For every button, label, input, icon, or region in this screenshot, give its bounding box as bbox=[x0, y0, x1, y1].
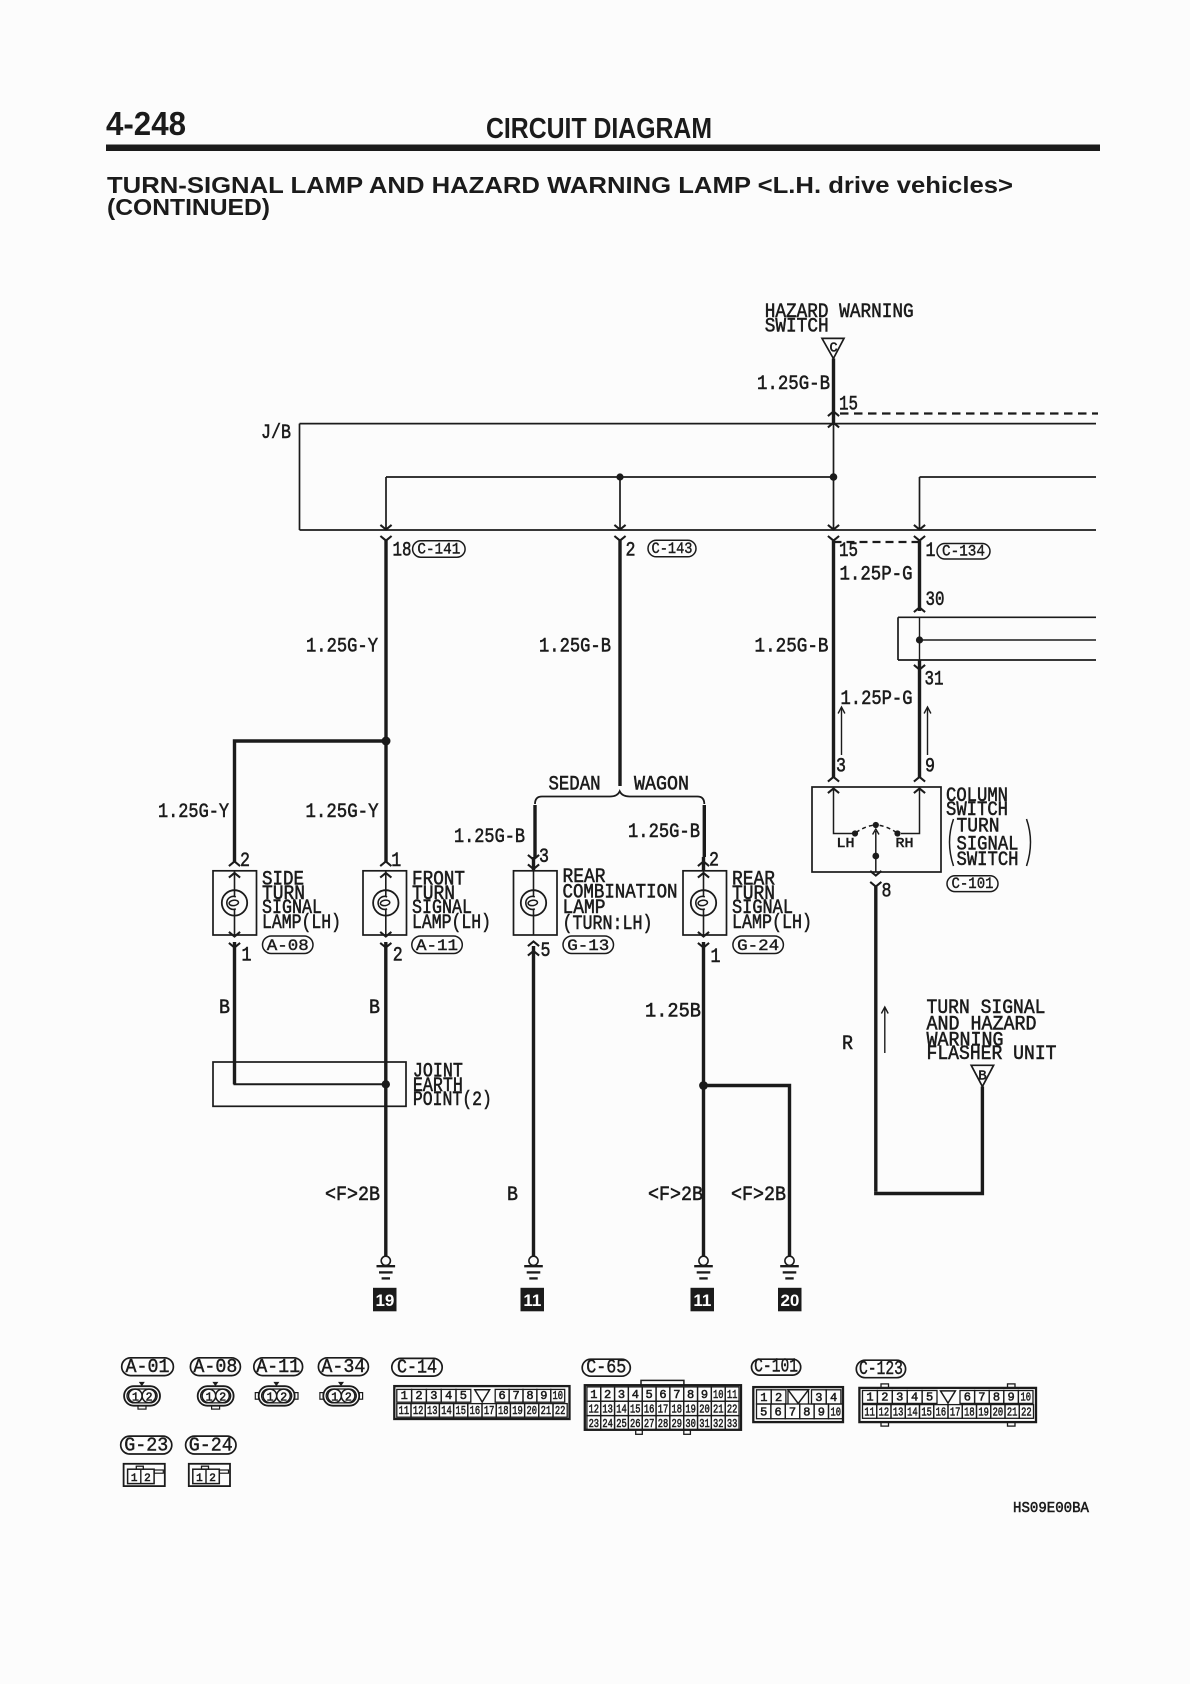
svg-text:29: 29 bbox=[672, 1417, 683, 1431]
junction box internal wire bbox=[919, 617, 921, 660]
svg-text:5: 5 bbox=[926, 1390, 933, 1404]
lamp connector stadium bbox=[412, 936, 463, 954]
svg-text:SWITCH: SWITCH bbox=[957, 849, 1019, 872]
wire 1.25G-B from J/B pin 2 bbox=[618, 541, 621, 786]
svg-text:25: 25 bbox=[616, 1417, 627, 1431]
ground symbol 19 bbox=[381, 1256, 390, 1265]
svg-text:21: 21 bbox=[1007, 1405, 1018, 1419]
intermediate junction box open right bbox=[898, 616, 1096, 618]
chevrons exit pin 15 bbox=[828, 525, 839, 530]
svg-text:6: 6 bbox=[964, 1390, 971, 1404]
connector label C-101 bbox=[752, 1359, 801, 1375]
svg-text:16: 16 bbox=[470, 1404, 481, 1418]
lamp internal lead bbox=[234, 871, 236, 897]
chevrons entering column switch pin 9 bbox=[914, 777, 925, 782]
svg-text:<F>2B: <F>2B bbox=[325, 1184, 380, 1207]
svg-text:8: 8 bbox=[526, 1389, 533, 1403]
lamp bulb circle bbox=[691, 890, 716, 915]
svg-text:12: 12 bbox=[879, 1405, 890, 1419]
svg-text:G-13: G-13 bbox=[567, 937, 609, 955]
svg-text:6: 6 bbox=[499, 1389, 506, 1403]
svg-text:1.25G-B: 1.25G-B bbox=[628, 821, 700, 844]
svg-text:G-23: G-23 bbox=[124, 1434, 168, 1456]
J/B internal line to C-134 pin 1 bbox=[920, 476, 1097, 478]
lamp bulb circle bbox=[222, 890, 247, 915]
svg-text:16: 16 bbox=[644, 1403, 655, 1417]
svg-text:C-123: C-123 bbox=[859, 1358, 903, 1380]
svg-text:4: 4 bbox=[445, 1389, 452, 1403]
svg-text:11: 11 bbox=[693, 1291, 711, 1310]
dashed tie between pin15 and pin1 wires bbox=[834, 541, 920, 543]
connector C-123 bottom tabs bbox=[881, 1422, 889, 1426]
svg-text:28: 28 bbox=[658, 1417, 669, 1431]
LH contact dot bbox=[852, 830, 858, 836]
svg-text:1: 1 bbox=[267, 1391, 274, 1404]
lamp filament loop bbox=[378, 896, 387, 909]
svg-text:27: 27 bbox=[644, 1417, 655, 1431]
svg-text:10: 10 bbox=[713, 1388, 724, 1402]
svg-text:14: 14 bbox=[907, 1405, 918, 1419]
svg-text:14: 14 bbox=[616, 1403, 627, 1417]
wiper arrow to common pole bbox=[873, 829, 879, 835]
svg-text:26: 26 bbox=[630, 1417, 641, 1431]
svg-text:2: 2 bbox=[345, 1391, 352, 1404]
chevrons exiting column switch pin 8 bbox=[870, 871, 881, 876]
svg-text:CIRCUIT DIAGRAM: CIRCUIT DIAGRAM bbox=[486, 113, 712, 145]
branch wire to ground 20 bbox=[704, 1086, 790, 1257]
lamp connector stadium bbox=[263, 936, 314, 954]
connector C-141 stadium bbox=[413, 541, 466, 557]
connector A-01 face bbox=[124, 1386, 160, 1406]
svg-text:1: 1 bbox=[391, 850, 401, 873]
connector label G-23 bbox=[121, 1436, 172, 1454]
svg-text:22: 22 bbox=[555, 1404, 566, 1418]
svg-text:WAGON: WAGON bbox=[634, 774, 689, 797]
svg-text:10: 10 bbox=[1020, 1390, 1031, 1404]
svg-text:7: 7 bbox=[673, 1388, 680, 1402]
lamp filament loop bbox=[696, 896, 705, 909]
svg-text:C: C bbox=[829, 342, 837, 357]
wire 1.25G-Y from J/B pin 18 bbox=[384, 541, 387, 862]
svg-text:1: 1 bbox=[866, 1390, 873, 1404]
svg-text:31: 31 bbox=[699, 1417, 710, 1431]
wire R from column switch pin 8 bbox=[874, 887, 877, 1192]
flasher terminal B triangle bbox=[971, 1065, 993, 1086]
connector C-101 face bbox=[753, 1387, 843, 1422]
svg-text:1: 1 bbox=[131, 1473, 138, 1485]
J/B internal wire hazard continuation bbox=[833, 424, 835, 530]
earth bus inside joint earth box bbox=[233, 1062, 236, 1084]
svg-text:33: 33 bbox=[727, 1417, 738, 1431]
dashed wiper to RH bbox=[876, 825, 897, 833]
svg-text:18: 18 bbox=[964, 1405, 975, 1419]
svg-text:15: 15 bbox=[921, 1405, 932, 1419]
svg-text:14: 14 bbox=[441, 1404, 452, 1418]
svg-text:<F>2B: <F>2B bbox=[648, 1184, 703, 1207]
svg-text:J/B: J/B bbox=[261, 422, 291, 445]
connector G-23 face bbox=[124, 1464, 165, 1486]
svg-text:7: 7 bbox=[512, 1389, 519, 1403]
connector A-08 face bbox=[198, 1386, 234, 1406]
wire B from side lamp pin 1 bbox=[233, 942, 236, 1062]
svg-text:(TURN:LH): (TURN:LH) bbox=[563, 913, 653, 936]
flow arrow on R wire bbox=[884, 1009, 886, 1054]
J/B left edge bbox=[299, 424, 301, 530]
svg-text:LAMP(LH): LAMP(LH) bbox=[262, 912, 341, 935]
svg-text:LH: LH bbox=[837, 836, 855, 852]
svg-text:2: 2 bbox=[219, 1391, 226, 1404]
svg-text:17: 17 bbox=[950, 1405, 961, 1419]
column switch internal lead pin 9 bbox=[901, 787, 920, 834]
svg-text:11: 11 bbox=[727, 1388, 738, 1402]
svg-text:12: 12 bbox=[589, 1403, 600, 1417]
svg-text:2: 2 bbox=[881, 1390, 888, 1404]
ground symbol 11 bbox=[529, 1256, 538, 1265]
svg-text:2: 2 bbox=[280, 1391, 287, 1404]
lamp internal lead bbox=[533, 871, 535, 897]
flow arrow on pin9 wire bbox=[927, 709, 929, 756]
svg-text:POINT(2): POINT(2) bbox=[413, 1089, 492, 1112]
svg-text:13: 13 bbox=[602, 1403, 613, 1417]
svg-text:20: 20 bbox=[699, 1403, 710, 1417]
svg-text:A-08: A-08 bbox=[267, 937, 309, 955]
wire B from front lamp pin 2 bbox=[384, 942, 387, 1062]
side turn signal lamp box bbox=[213, 871, 257, 935]
svg-text:7: 7 bbox=[978, 1390, 985, 1404]
wire from front lamp through earth box to ground bbox=[384, 1062, 387, 1256]
ground number box 19 bbox=[373, 1288, 397, 1312]
svg-text:1.25G-Y: 1.25G-Y bbox=[158, 801, 229, 824]
big parenthesis left bbox=[950, 819, 954, 866]
svg-text:22: 22 bbox=[1021, 1405, 1032, 1419]
lamp connector stadium bbox=[563, 936, 614, 954]
svg-text:C-101: C-101 bbox=[952, 875, 994, 893]
flow arrow on pin3 wire bbox=[841, 709, 843, 756]
svg-text:11: 11 bbox=[399, 1404, 410, 1418]
svg-text:8: 8 bbox=[687, 1388, 694, 1402]
svg-text:10: 10 bbox=[830, 1406, 841, 1420]
ground symbol 11 bbox=[699, 1256, 708, 1265]
svg-text:C-65: C-65 bbox=[586, 1357, 626, 1379]
svg-text:6: 6 bbox=[774, 1406, 781, 1420]
chevrons exit pin 18 bbox=[380, 525, 391, 530]
chevrons exit pin 1 bbox=[914, 525, 925, 530]
connector label A-08 bbox=[190, 1358, 240, 1376]
lamp filament loop bbox=[227, 896, 236, 909]
connector label G-24 bottom bbox=[186, 1436, 236, 1454]
svg-text:2: 2 bbox=[146, 1391, 153, 1404]
J/B bottom edge bbox=[300, 529, 1097, 531]
svg-text:1.25G-Y: 1.25G-Y bbox=[306, 801, 379, 824]
svg-text:2: 2 bbox=[604, 1388, 611, 1402]
column switch box bbox=[812, 787, 941, 872]
wire 1.25P-G to column switch pin 9 bbox=[918, 660, 921, 777]
svg-text:9: 9 bbox=[1007, 1390, 1014, 1404]
lamp connector stadium bbox=[733, 936, 784, 954]
svg-text:4-248: 4-248 bbox=[106, 105, 186, 142]
rear combination lamp box bbox=[514, 871, 558, 935]
svg-text:1.25G-B: 1.25G-B bbox=[755, 636, 829, 659]
J/B internal wire to pin 2 bbox=[619, 477, 621, 530]
svg-text:1: 1 bbox=[132, 1391, 139, 1404]
lamp internal lead bbox=[385, 871, 387, 897]
svg-text:2: 2 bbox=[415, 1389, 422, 1403]
connector C-134 stadium bbox=[937, 544, 990, 560]
svg-text:21: 21 bbox=[541, 1404, 552, 1418]
svg-text:20: 20 bbox=[993, 1405, 1004, 1419]
connector C-14 face bbox=[394, 1386, 569, 1419]
svg-text:3: 3 bbox=[539, 846, 549, 869]
svg-text:5: 5 bbox=[460, 1389, 467, 1403]
svg-text:C-141: C-141 bbox=[417, 541, 460, 559]
connector label C-123 bbox=[856, 1360, 905, 1378]
connector C-65 bottom tabs bbox=[636, 1430, 643, 1435]
svg-text:5: 5 bbox=[760, 1406, 767, 1420]
svg-text:4: 4 bbox=[830, 1391, 837, 1405]
svg-text:32: 32 bbox=[713, 1417, 724, 1431]
connector label A-11 bbox=[254, 1358, 303, 1376]
svg-text:8: 8 bbox=[803, 1406, 810, 1420]
svg-text:C-134: C-134 bbox=[942, 542, 985, 560]
svg-text:19: 19 bbox=[512, 1404, 523, 1418]
svg-text:10: 10 bbox=[553, 1389, 564, 1403]
ground number box 20 bbox=[778, 1288, 802, 1312]
svg-text:24: 24 bbox=[602, 1417, 613, 1431]
svg-text:B: B bbox=[978, 1069, 986, 1085]
svg-text:20: 20 bbox=[526, 1404, 537, 1418]
chevrons entering column switch pin 3 bbox=[828, 777, 839, 782]
svg-text:R: R bbox=[842, 1033, 853, 1056]
svg-text:13: 13 bbox=[427, 1404, 438, 1418]
connector label C-65 bbox=[582, 1359, 630, 1376]
connector C-65 face bbox=[585, 1385, 741, 1430]
wire loop to flasher unit bbox=[876, 1087, 983, 1194]
connector label A-34 bbox=[318, 1358, 368, 1376]
svg-text:G-24: G-24 bbox=[189, 1434, 233, 1456]
connector A-11 face bbox=[259, 1386, 295, 1406]
svg-text:2: 2 bbox=[144, 1473, 151, 1485]
svg-text:20: 20 bbox=[780, 1291, 799, 1310]
svg-text:HS09E00BA: HS09E00BA bbox=[1013, 1500, 1089, 1517]
svg-text:16: 16 bbox=[936, 1405, 947, 1419]
connector A-34 face bbox=[323, 1386, 359, 1406]
svg-text:3: 3 bbox=[815, 1391, 822, 1405]
wire 1.25P-G from J/B pin 15 to column switch pin 3 bbox=[832, 541, 835, 777]
svg-text:1: 1 bbox=[926, 540, 936, 563]
svg-text:RH: RH bbox=[896, 836, 914, 852]
svg-text:18: 18 bbox=[498, 1404, 509, 1418]
svg-text:12: 12 bbox=[413, 1404, 424, 1418]
J/B dashed top line bbox=[840, 412, 1098, 414]
svg-text:1: 1 bbox=[206, 1391, 213, 1404]
svg-text:1.25B: 1.25B bbox=[645, 1001, 701, 1024]
svg-text:17: 17 bbox=[658, 1403, 669, 1417]
svg-text:A-01: A-01 bbox=[126, 1356, 170, 1378]
chevrons entering J/B bbox=[828, 412, 839, 417]
wire 1.25G-B wagon branch bbox=[703, 805, 706, 857]
svg-text:3: 3 bbox=[896, 1390, 903, 1404]
common pole dot bbox=[873, 822, 879, 828]
wire 1.25G-B from hazard switch bbox=[832, 359, 835, 426]
svg-text:30: 30 bbox=[926, 589, 945, 612]
wire 1.25G-B sedan branch bbox=[533, 805, 536, 857]
svg-text:5: 5 bbox=[646, 1388, 653, 1402]
svg-text:2: 2 bbox=[209, 1473, 216, 1485]
svg-text:6: 6 bbox=[659, 1388, 666, 1402]
junction dot internal bus at hazard wire bbox=[830, 473, 838, 481]
lamp internal lead bbox=[703, 871, 705, 897]
svg-text:9: 9 bbox=[540, 1389, 547, 1403]
svg-text:A-11: A-11 bbox=[416, 937, 458, 955]
J/B internal wire to pin 18 bbox=[385, 477, 387, 530]
ground number box 11 bbox=[521, 1288, 545, 1312]
connector C-101 stadium bbox=[947, 876, 998, 892]
svg-text:2: 2 bbox=[709, 850, 719, 873]
svg-text:8: 8 bbox=[993, 1390, 1000, 1404]
junction dot joint earth bbox=[382, 1080, 390, 1088]
svg-text:3: 3 bbox=[836, 756, 846, 779]
svg-text:31: 31 bbox=[925, 669, 944, 692]
hazard warning switch terminal C triangle bbox=[822, 338, 844, 358]
svg-text:2: 2 bbox=[775, 1391, 782, 1405]
svg-text:SWITCH: SWITCH bbox=[765, 315, 829, 338]
header rule bbox=[106, 145, 1100, 152]
svg-text:1.25G-Y: 1.25G-Y bbox=[306, 636, 378, 659]
svg-text:8: 8 bbox=[882, 881, 892, 904]
svg-text:11: 11 bbox=[864, 1405, 875, 1419]
svg-text:LAMP(LH): LAMP(LH) bbox=[732, 912, 812, 935]
lamp bulb circle bbox=[373, 890, 398, 915]
svg-text:2: 2 bbox=[240, 850, 250, 873]
wire 1.25P-G from J/B pin 1 bbox=[918, 541, 921, 611]
J/B internal bus line bbox=[386, 476, 834, 478]
svg-text:C-101: C-101 bbox=[754, 1356, 798, 1378]
svg-text:C-14: C-14 bbox=[397, 1357, 437, 1379]
svg-text:17: 17 bbox=[484, 1404, 495, 1418]
ground number box 11 bbox=[691, 1288, 715, 1312]
svg-text:1: 1 bbox=[331, 1391, 338, 1404]
svg-text:4: 4 bbox=[911, 1390, 918, 1404]
svg-text:1.25P-G: 1.25P-G bbox=[841, 688, 913, 711]
junction dot on internal bus at C-143 branch bbox=[616, 473, 623, 480]
svg-text:B: B bbox=[219, 997, 230, 1020]
svg-text:11: 11 bbox=[523, 1291, 541, 1310]
svg-text:1.25P-G: 1.25P-G bbox=[840, 564, 913, 587]
connector label C-14 bbox=[392, 1358, 442, 1376]
svg-text:FLASHER UNIT: FLASHER UNIT bbox=[927, 1043, 1057, 1066]
rear turn signal lamp box bbox=[683, 871, 727, 935]
svg-text:(CONTINUED): (CONTINUED) bbox=[107, 194, 270, 220]
connector C-123 face bbox=[859, 1388, 1036, 1422]
dashed wiper to LH bbox=[856, 825, 876, 833]
connector label A-01 bbox=[122, 1358, 174, 1376]
svg-text:21: 21 bbox=[713, 1403, 724, 1417]
chevron exiting box pin 31 bbox=[914, 665, 925, 670]
branch wire to side turn signal lamp bbox=[235, 741, 387, 862]
svg-text:7: 7 bbox=[789, 1406, 796, 1420]
svg-text:19: 19 bbox=[978, 1405, 989, 1419]
svg-text:1: 1 bbox=[242, 945, 252, 968]
svg-text:2: 2 bbox=[626, 540, 636, 563]
junction dot in box bbox=[916, 636, 923, 643]
connector G-24 face bbox=[189, 1464, 230, 1486]
svg-text:LAMP(LH): LAMP(LH) bbox=[412, 912, 491, 935]
svg-text:1: 1 bbox=[760, 1391, 767, 1405]
svg-text:30: 30 bbox=[685, 1417, 696, 1431]
svg-text:1.25G-B: 1.25G-B bbox=[539, 636, 611, 659]
svg-text:23: 23 bbox=[589, 1417, 600, 1431]
split brace bbox=[535, 791, 704, 804]
svg-text:2: 2 bbox=[393, 945, 403, 968]
connector C-143 stadium bbox=[648, 540, 696, 557]
svg-text:3: 3 bbox=[430, 1389, 437, 1403]
svg-text:1: 1 bbox=[196, 1473, 203, 1485]
internal bus to page edge bbox=[920, 639, 1097, 641]
ground symbol 20 bbox=[785, 1256, 794, 1265]
svg-text:18: 18 bbox=[672, 1403, 683, 1417]
joint earth point box bbox=[213, 1062, 406, 1106]
svg-text:15: 15 bbox=[630, 1403, 641, 1417]
svg-text:18: 18 bbox=[393, 540, 412, 563]
svg-text:A-34: A-34 bbox=[321, 1356, 365, 1378]
svg-text:1: 1 bbox=[711, 946, 721, 969]
svg-text:9: 9 bbox=[925, 756, 935, 779]
svg-text:G-24: G-24 bbox=[737, 937, 779, 955]
junction dot below pole bbox=[872, 853, 879, 860]
junction dot G-Y branch bbox=[382, 737, 391, 746]
svg-text:15: 15 bbox=[839, 540, 858, 563]
lamp bulb circle bbox=[521, 890, 546, 915]
svg-text:1: 1 bbox=[401, 1389, 408, 1403]
svg-text:B: B bbox=[507, 1184, 518, 1207]
connector C-65 top tab bbox=[641, 1380, 684, 1385]
svg-text:1: 1 bbox=[590, 1388, 597, 1402]
svg-text:19: 19 bbox=[685, 1403, 696, 1417]
svg-text:1.25G-B: 1.25G-B bbox=[757, 373, 830, 396]
svg-text:3: 3 bbox=[618, 1388, 625, 1402]
svg-text:A-08: A-08 bbox=[193, 1356, 237, 1378]
column switch internal lead pin 3 bbox=[834, 787, 853, 834]
front turn signal lamp box bbox=[363, 871, 407, 935]
svg-text:13: 13 bbox=[893, 1405, 904, 1419]
svg-text:9: 9 bbox=[818, 1406, 825, 1420]
chevron entering intermediate connector bbox=[914, 608, 925, 613]
wire 1.25B from rear turn lamp pin 1 bbox=[702, 942, 705, 1256]
svg-text:22: 22 bbox=[727, 1403, 738, 1417]
connector C-123 top tabs bbox=[881, 1384, 889, 1388]
svg-text:4: 4 bbox=[632, 1388, 639, 1402]
column switch internal lead pin 8 bbox=[875, 856, 877, 872]
J/B top edge bbox=[300, 423, 1097, 425]
svg-text:C-143: C-143 bbox=[652, 540, 693, 558]
svg-text:<F>2B: <F>2B bbox=[731, 1184, 786, 1207]
svg-text:5: 5 bbox=[541, 940, 551, 963]
lamp filament loop bbox=[526, 896, 535, 909]
svg-text:1.25G-B: 1.25G-B bbox=[454, 826, 525, 849]
svg-text:9: 9 bbox=[701, 1388, 708, 1402]
RH contact dot bbox=[894, 830, 900, 836]
svg-text:19: 19 bbox=[375, 1291, 394, 1310]
svg-text:SEDAN: SEDAN bbox=[549, 774, 601, 797]
big parenthesis right bbox=[1027, 819, 1031, 866]
chevrons exit pin 2 bbox=[614, 525, 625, 530]
svg-text:A-11: A-11 bbox=[256, 1356, 300, 1378]
svg-text:15: 15 bbox=[455, 1404, 466, 1418]
svg-text:B: B bbox=[369, 997, 380, 1020]
wire B from rear combination lamp pin 5 bbox=[532, 946, 535, 1256]
junction dot 1.25B branch bbox=[699, 1081, 708, 1090]
